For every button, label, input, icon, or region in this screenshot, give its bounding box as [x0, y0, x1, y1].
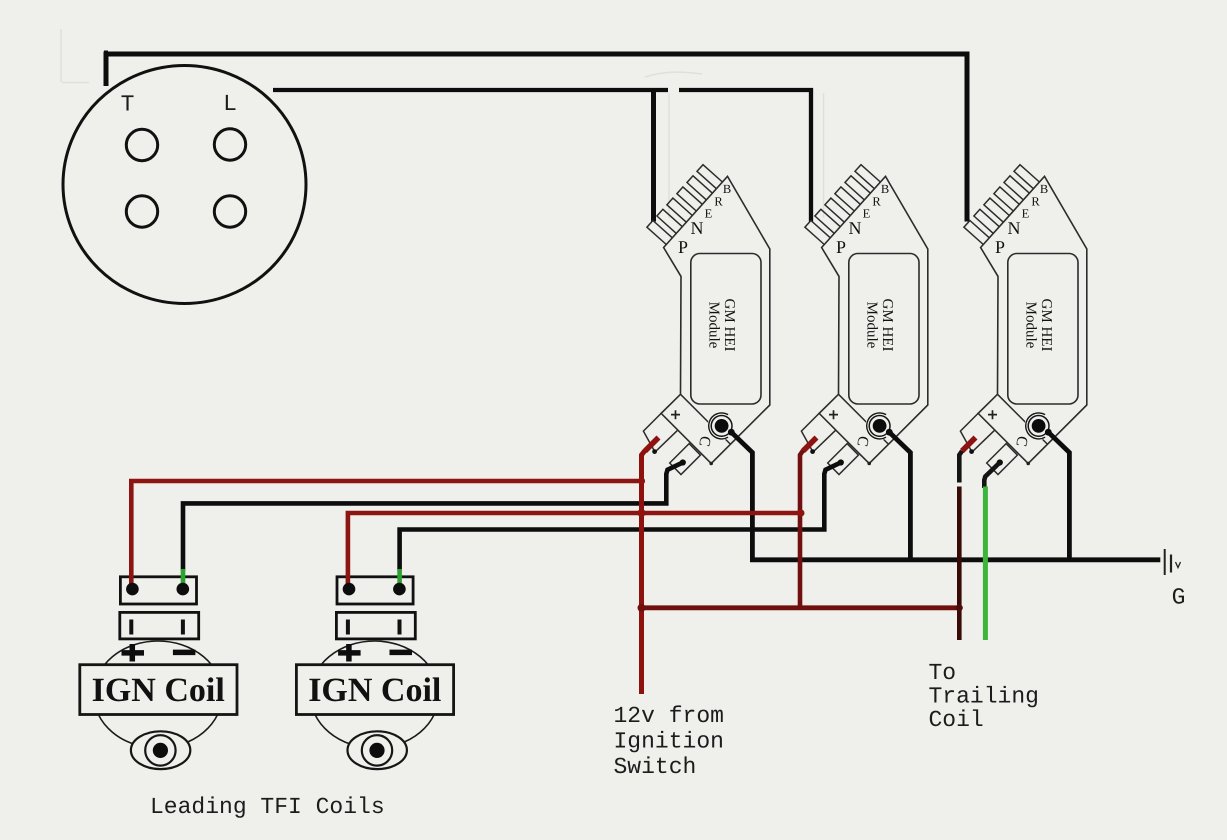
wire module1 C to ground bus: [731, 432, 1160, 560]
wire module1 minus pin to coil1 minus: [183, 463, 683, 571]
IGN coil 1 (leading): [80, 577, 237, 769]
coil1 plus terminal dot: [126, 583, 139, 596]
svg-text:Leading TFI Coils: Leading TFI Coils: [150, 794, 385, 820]
green tip coil2 minus: [397, 569, 402, 584]
wire module3 12v black segment: [959, 451, 962, 483]
pin hole L bottom: [214, 196, 245, 227]
wire coil1 plus to module1 12v: [131, 481, 641, 586]
wire module2 C to ground bus: [889, 432, 910, 560]
svg-text:T: T: [121, 92, 135, 118]
GM HEI module U3: [960, 165, 1086, 475]
wire module3 C to ground bus: [1048, 432, 1069, 560]
wire module2 12v drop: [800, 451, 803, 609]
wire module3 to trailing coil (dark): [957, 487, 962, 641]
wire module3 minus black elbow: [984, 463, 1000, 489]
svg-text:Coil: Coil: [929, 707, 984, 733]
svg-text:Trailing: Trailing: [929, 684, 1039, 710]
svg-text:L: L: [223, 91, 237, 117]
coil1 minus terminal dot: [177, 583, 190, 596]
junction dot 12v bus left: [638, 604, 646, 612]
GM HEI module U1: [643, 165, 769, 475]
green wire to trailing coil: [983, 487, 988, 641]
coil2 minus terminal dot: [393, 583, 406, 596]
svg-text:To: To: [929, 660, 957, 686]
svg-text:Switch: Switch: [614, 754, 697, 780]
green tip coil1 minus: [181, 569, 186, 584]
junction dot 12v/coil1: [638, 477, 645, 484]
ground symbol: [1165, 549, 1181, 575]
wire module2 minus pin to coil2 minus: [400, 463, 841, 571]
svg-text:Ignition: Ignition: [614, 729, 724, 755]
svg-text:12v from: 12v from: [614, 703, 724, 729]
pin hole L top: [214, 129, 245, 160]
GM HEI module U2: [801, 165, 927, 475]
distributor connector circle: [63, 66, 306, 304]
junction dot 12v bus right: [956, 604, 963, 611]
12v supply bus: [642, 605, 960, 610]
wire T to module 3 pins: [106, 54, 967, 222]
wire coil2 plus to module2 12v: [348, 513, 801, 586]
junction dot 12v/coil2 cross: [638, 509, 646, 517]
IGN coil 2 (leading): [296, 577, 453, 769]
pin hole T top: [126, 129, 157, 160]
wire branch to module 1 pins: [651, 90, 656, 222]
svg-text:G: G: [1172, 585, 1186, 611]
coil2 plus terminal dot: [343, 583, 356, 596]
faint erased-line artifacts: [61, 29, 824, 218]
wire L to module 2 pins: [273, 90, 811, 222]
wire module1 12v drop: [642, 451, 646, 695]
pin hole T bottom: [126, 196, 157, 227]
junction dot coil2/module2: [798, 510, 805, 517]
